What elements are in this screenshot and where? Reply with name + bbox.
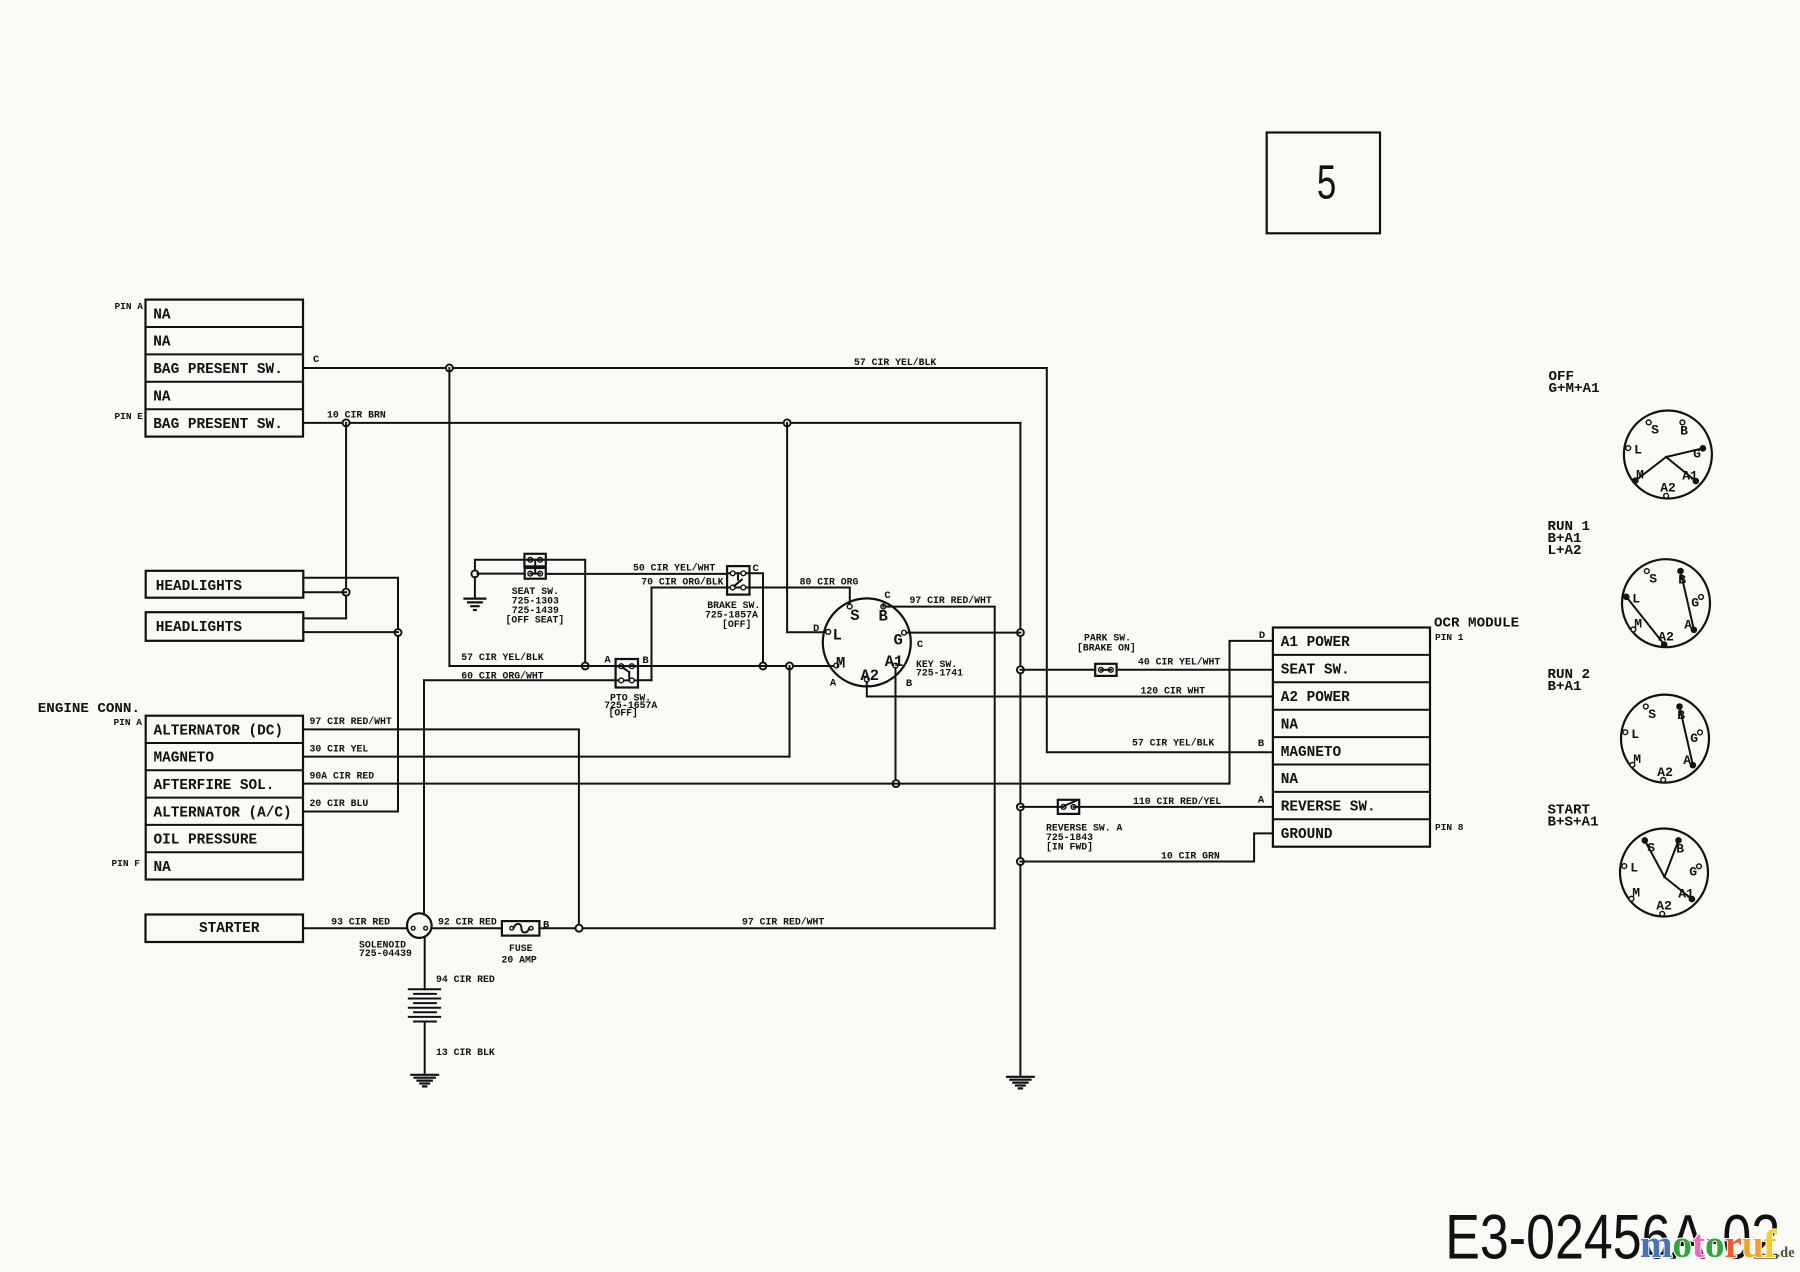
svg-text:L: L [1634,443,1642,458]
junction alternator feed [576,925,583,932]
svg-text:L: L [1630,861,1638,876]
svg-text:725-1741: 725-1741 [916,668,963,679]
svg-text:PIN A: PIN A [114,301,143,312]
wire key B 97 CIR RED/WHT [882,604,884,606]
svg-text:725-04439: 725-04439 [359,948,412,959]
wire starter to solenoid [303,927,407,929]
svg-text:HEADLIGHTS: HEADLIGHTS [156,579,243,595]
headlights box 1 [146,571,304,598]
svg-text:C: C [917,639,924,651]
svg-text:5: 5 [1317,155,1336,209]
svg-text:SEAT SW.: SEAT SW. [1281,663,1350,679]
svg-text:A1: A1 [885,653,904,671]
svg-text:PIN 8: PIN 8 [1435,822,1464,833]
svg-text:40 CIR YEL/WHT: 40 CIR YEL/WHT [1138,657,1220,668]
fuse [502,921,540,936]
svg-text:A2: A2 [1657,765,1673,780]
wire solenoid up to 60 ORG/WHT [423,680,425,914]
svg-text:[IN FWD]: [IN FWD] [1046,842,1093,853]
svg-text:60 CIR ORG/WHT: 60 CIR ORG/WHT [461,671,543,682]
svg-text:S: S [1648,707,1656,722]
svg-text:D: D [813,623,819,635]
svg-text:ENGINE CONN.: ENGINE CONN. [38,701,140,717]
wire 10 CIR BRN from bag switch PIN E [303,422,1020,424]
PTO switch [616,659,638,688]
svg-text:57 CIR YEL/BLK: 57 CIR YEL/BLK [854,357,936,368]
svg-text:A2 POWER: A2 POWER [1281,690,1350,706]
wire headlight2 lower [303,631,398,633]
svg-text:94 CIR RED: 94 CIR RED [436,974,495,985]
wire park switch feed [1020,669,1095,671]
svg-text:92 CIR RED: 92 CIR RED [438,917,497,928]
svg-text:G: G [1693,447,1701,462]
svg-text:B: B [543,920,550,932]
svg-text:C: C [313,354,320,366]
headlights box 2 [146,612,304,641]
svg-text:PIN E: PIN E [114,411,143,422]
svg-text:L: L [1632,591,1640,606]
svg-text:[BRAKE ON]: [BRAKE ON] [1077,643,1136,654]
svg-text:MAGNETO: MAGNETO [1281,745,1342,761]
junction seat to 57 wire [582,663,589,670]
svg-text:ALTERNATOR (A/C): ALTERNATOR (A/C) [154,805,292,821]
svg-text:20 AMP: 20 AMP [502,955,537,966]
svg-text:L: L [1631,727,1639,742]
battery [409,988,440,990]
svg-text:GROUND: GROUND [1281,827,1333,843]
svg-text:A1: A1 [1678,887,1694,902]
junction headlight tap [343,419,350,426]
wire headlight1 lower [303,591,346,593]
svg-text:ALTERNATOR (DC): ALTERNATOR (DC) [154,723,284,739]
svg-text:A1: A1 [1682,469,1698,484]
svg-text:NA: NA [1281,717,1299,733]
drawing number E3-02456A-02 [1445,1203,1780,1272]
key position OFF [1624,411,1712,499]
svg-text:NA: NA [154,860,172,876]
svg-text:NA: NA [1281,772,1299,788]
wire seat switch left lower [478,573,525,575]
svg-text:97 CIR RED/WHT: 97 CIR RED/WHT [310,716,392,727]
svg-text:M: M [1633,752,1641,767]
svg-text:HEADLIGHTS: HEADLIGHTS [156,620,243,636]
wire 40 CIR YEL/WHT park to OCR seat [1117,669,1273,671]
wire 97 CIR RED/WHT alternator DC down to fuse [303,729,579,928]
wire headlight2 upper [303,617,346,619]
ground symbol seat [463,597,486,599]
wire solenoid to fuse [432,927,502,929]
wire L terminal to BRN net [787,423,826,632]
svg-text:motoruf.de: motoruf.de [1640,1223,1795,1266]
svg-text:M: M [836,654,845,672]
svg-text:B: B [1676,842,1684,857]
svg-text:NA: NA [153,335,171,351]
wire brake C to 57 net [750,573,764,666]
svg-text:A: A [1258,795,1265,807]
wire seat switch right upper to 57 net [546,560,585,666]
key position RUN 2 [1621,695,1709,783]
svg-text:BAG PRESENT SW.: BAG PRESENT SW. [153,417,283,433]
svg-text:G+M+A1: G+M+A1 [1549,381,1600,397]
junction headlights [343,589,350,596]
svg-text:97 CIR RED/WHT: 97 CIR RED/WHT [910,595,992,606]
seat switch [524,554,545,567]
sheet number box 5 [1267,133,1380,234]
svg-text:AFTERFIRE SOL.: AFTERFIRE SOL. [154,778,275,794]
svg-text:10 CIR GRN: 10 CIR GRN [1161,851,1220,862]
svg-text:PIN 1: PIN 1 [1435,632,1464,643]
svg-text:A1 POWER: A1 POWER [1281,635,1350,651]
svg-text:A2: A2 [1658,629,1674,644]
svg-text:50 CIR YEL/WHT: 50 CIR YEL/WHT [633,563,715,574]
wire 10 CIR GRN to OCR ground [1020,833,1273,861]
junction L wire tap [784,419,791,426]
svg-text:A2: A2 [860,667,879,685]
wire 50 CIR YEL/WHT seat to brake [546,573,727,575]
svg-text:A2: A2 [1656,899,1672,914]
reverse switch [1058,800,1079,814]
junction park switch feed [1017,666,1024,673]
wire solenoid down to battery [424,938,426,990]
svg-text:[OFF]: [OFF] [609,708,638,719]
svg-text:B: B [906,678,913,690]
key position START [1620,829,1708,917]
svg-text:B: B [1258,738,1265,750]
svg-text:NA: NA [153,307,171,323]
wire 57 row through PTO to key M [449,665,833,667]
svg-text:M: M [1632,886,1640,901]
solenoid [407,913,432,938]
junction seat ground [471,570,478,577]
svg-text:L+A2: L+A2 [1548,543,1582,559]
connector block: bag present switches [146,300,304,437]
svg-text:STARTER: STARTER [199,921,260,937]
svg-text:30 CIR YEL: 30 CIR YEL [310,744,369,755]
svg-text:S: S [850,607,859,625]
wire fuse to key B riser [539,927,994,929]
junction brake C [760,663,767,670]
svg-text:G: G [893,632,902,650]
svg-text:A2: A2 [1660,481,1676,496]
svg-text:110 CIR RED/YEL: 110 CIR RED/YEL [1133,796,1221,807]
svg-text:A: A [1684,617,1692,632]
wire 110 CIR RED/YEL to OCR [1074,806,1273,808]
svg-text:NA: NA [153,390,171,406]
svg-text:G: G [1691,595,1699,610]
wire battery to ground [424,1022,426,1075]
svg-text:B: B [878,608,887,626]
svg-text:B: B [1677,708,1685,723]
svg-text:G: G [1690,731,1698,746]
starter box [146,915,304,943]
ground symbol center [1006,1076,1035,1078]
svg-text:13 CIR BLK: 13 CIR BLK [436,1047,495,1058]
svg-text:OCR MODULE: OCR MODULE [1434,616,1519,632]
svg-text:MAGNETO: MAGNETO [154,751,215,767]
svg-text:S: S [1649,571,1657,586]
junction reverse switch feed [1017,803,1024,810]
svg-text:57 CIR YEL/BLK: 57 CIR YEL/BLK [461,652,543,663]
wire key A1 down [895,668,897,784]
svg-text:BAG PRESENT SW.: BAG PRESENT SW. [153,362,283,378]
brake switch [727,566,749,595]
svg-text:S: S [1647,841,1655,856]
svg-text:[OFF SEAT]: [OFF SEAT] [506,615,565,626]
svg-text:M: M [1634,616,1642,631]
svg-text:FUSE: FUSE [509,943,533,954]
svg-text:G: G [1689,865,1697,880]
wire 80 CIR ORG brake to S [750,588,850,605]
wire vertical 57 to PTO row [448,368,450,666]
svg-text:20 CIR BLU: 20 CIR BLU [310,798,369,809]
wire 60 CIR ORG/WHT [424,679,616,681]
junction magneto riser [786,663,793,670]
svg-text:57 CIR YEL/BLK: 57 CIR YEL/BLK [1132,738,1214,749]
svg-text:L: L [833,626,842,644]
svg-text:90A CIR RED: 90A CIR RED [310,771,375,782]
svg-text:B: B [1678,572,1686,587]
svg-text:B: B [1680,424,1688,439]
junction G terminal [1017,629,1024,636]
ground symbol battery [410,1074,439,1076]
svg-text:PIN A: PIN A [113,717,142,728]
svg-text:80 CIR ORG: 80 CIR ORG [800,577,859,588]
svg-text:B+S+A1: B+S+A1 [1548,815,1599,831]
junction A1 afterfire [893,780,900,787]
svg-text:M: M [1636,468,1644,483]
key position RUN 1 [1622,559,1710,647]
wire 57 CIR YEL/BLK from bag switch C [303,367,1047,369]
wire 90A CIR RED afterfire to A1 POWER [303,783,896,785]
wire headlight vertical [345,423,347,619]
wire 70 CIR ORG/BLK [652,588,728,681]
park switch [1095,664,1116,676]
svg-text:C: C [884,590,891,602]
wire key G to ground net [906,632,1020,634]
wire key A2 to OCR A2 POWER [867,682,1273,697]
svg-text:10 CIR BRN: 10 CIR BRN [327,410,386,421]
svg-text:OIL PRESSURE: OIL PRESSURE [154,833,258,849]
svg-text:97 CIR RED/WHT: 97 CIR RED/WHT [742,917,824,928]
wire seat switch left upper [475,560,525,571]
wire magneto riser [789,666,791,757]
svg-text:93 CIR RED: 93 CIR RED [331,917,390,928]
svg-text:120 CIR WHT: 120 CIR WHT [1141,686,1206,697]
wire vertical 57 right to OCR magneto [1047,368,1273,752]
svg-text:REVERSE SW.: REVERSE SW. [1281,800,1376,816]
wire ground net vertical 10 CIR BRN [1019,423,1021,1075]
svg-text:PIN F: PIN F [111,858,140,869]
svg-text:A: A [830,678,837,690]
junction ground wire to OCR [1017,858,1024,865]
svg-text:A: A [604,655,611,667]
wire 30 CIR YEL magneto [303,756,790,758]
wire reverse switch feed [1020,806,1063,808]
junction on 57 wire [446,365,453,372]
svg-text:[OFF]: [OFF] [722,619,751,630]
wire seat ground drop [474,577,476,598]
svg-text:70 CIR ORG/BLK: 70 CIR ORG/BLK [641,577,723,588]
svg-text:B+A1: B+A1 [1548,679,1582,695]
key switch ignition [823,598,911,686]
svg-text:S: S [1651,423,1659,438]
junction headlight2 lower [395,629,402,636]
wire headlight1 upper to A/C vertical [303,578,398,812]
svg-text:A: A [1683,753,1691,768]
